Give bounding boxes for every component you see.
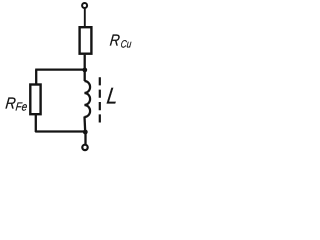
- svg-text:R: R: [109, 33, 121, 50]
- svg-text:Fe: Fe: [15, 101, 28, 114]
- svg-text:Cu: Cu: [120, 39, 132, 51]
